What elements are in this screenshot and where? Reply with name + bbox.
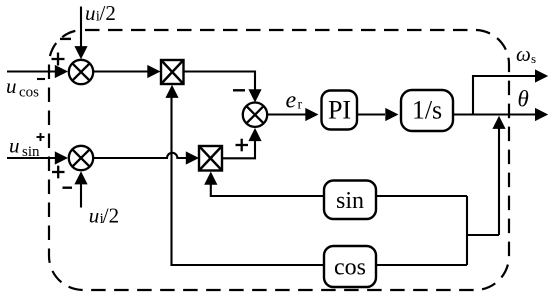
svg-text:e: e (286, 88, 297, 114)
arrowhead into 1/s (385, 108, 398, 121)
arrowhead up into M1 (165, 85, 178, 98)
block 1/s (401, 90, 453, 131)
block sin (324, 181, 376, 220)
arrowhead omega output (535, 69, 548, 82)
arrowhead up into theta line (492, 116, 505, 129)
multiplier box M1 (161, 60, 184, 84)
svg-text:/2: /2 (100, 1, 116, 25)
wire S1 to multiplier M1 (93, 70, 147, 72)
svg-text:s: s (531, 51, 536, 66)
branch wire up to omega output (473, 76, 536, 115)
arrowhead into PI (305, 108, 318, 121)
arrowhead up into S2 bottom (248, 128, 261, 141)
sign plus (bottom input of S2) (236, 139, 249, 152)
svg-text:cos: cos (19, 85, 39, 101)
svg-text:/2: /2 (103, 204, 119, 228)
arrowhead into summing circle S3 (55, 151, 68, 164)
svg-text:cos: cos (334, 255, 366, 281)
arrowhead into M1 (147, 65, 160, 78)
svg-text:sin: sin (336, 188, 364, 214)
sign plus (left input of S1) (52, 53, 65, 66)
wire M1 output right then down to S2 (184, 72, 256, 90)
arrowhead into summing circle S1 top (74, 46, 87, 59)
superscript plus after u_sin (37, 133, 45, 141)
summing circle S1 (u_cos - u_i/2) (69, 60, 93, 84)
wire M2 output right then up to S2 (222, 141, 255, 158)
block cos (324, 246, 376, 287)
dashed boundary box (49, 30, 509, 290)
multiplier box M2 (199, 146, 222, 171)
wire S3 to M2 with hop over vertical (93, 153, 186, 158)
svg-text:1/s: 1/s (412, 95, 442, 124)
svg-text:θ: θ (518, 87, 529, 112)
arrowhead into M2 (186, 151, 199, 164)
wire PI to 1/s (357, 113, 385, 115)
wire sin left to M2 bottom (211, 184, 324, 197)
wire cos left to M1 bottom (172, 97, 325, 265)
wire S2 to PI (267, 113, 305, 115)
arrowhead theta output (535, 108, 548, 121)
wire u_i/2 bottom input (80, 184, 82, 208)
block PI (322, 91, 358, 130)
svg-text:sin: sin (22, 144, 40, 160)
feedback bus vertical (466, 196, 468, 265)
arrowhead up into M2 (204, 172, 217, 185)
wire 1/s to theta output (453, 113, 536, 115)
svg-text:r: r (298, 98, 303, 113)
arrowhead down into S2 (248, 89, 261, 102)
wire u_cos input (7, 70, 56, 72)
wire u_sin input (7, 157, 56, 159)
sign plus (left input of S3) (52, 166, 65, 179)
summing circle S3 (u_sin) (69, 146, 93, 170)
svg-text:u: u (89, 204, 100, 228)
svg-text:u: u (85, 1, 96, 25)
svg-text:ω: ω (516, 42, 531, 66)
wire sin output right (376, 195, 467, 197)
feedback jog wire (467, 234, 499, 236)
sign minus (top input of S2) (233, 89, 245, 91)
feedback vertical into theta line (498, 129, 500, 236)
superscript minus after u_cos (37, 78, 45, 80)
arrowhead up into S3 bottom (74, 171, 87, 184)
summing circle S2 (error) (243, 103, 267, 127)
sign minus (top input of S1) (60, 38, 71, 40)
sign minus (bottom input of S3) (63, 186, 73, 188)
svg-text:u: u (6, 74, 17, 98)
wire u_i/2 top input (80, 7, 82, 48)
arrowhead into summing circle S1 (55, 65, 68, 78)
svg-text:u: u (9, 134, 20, 158)
wire cos output right (376, 264, 467, 266)
svg-text:PI: PI (328, 95, 351, 124)
